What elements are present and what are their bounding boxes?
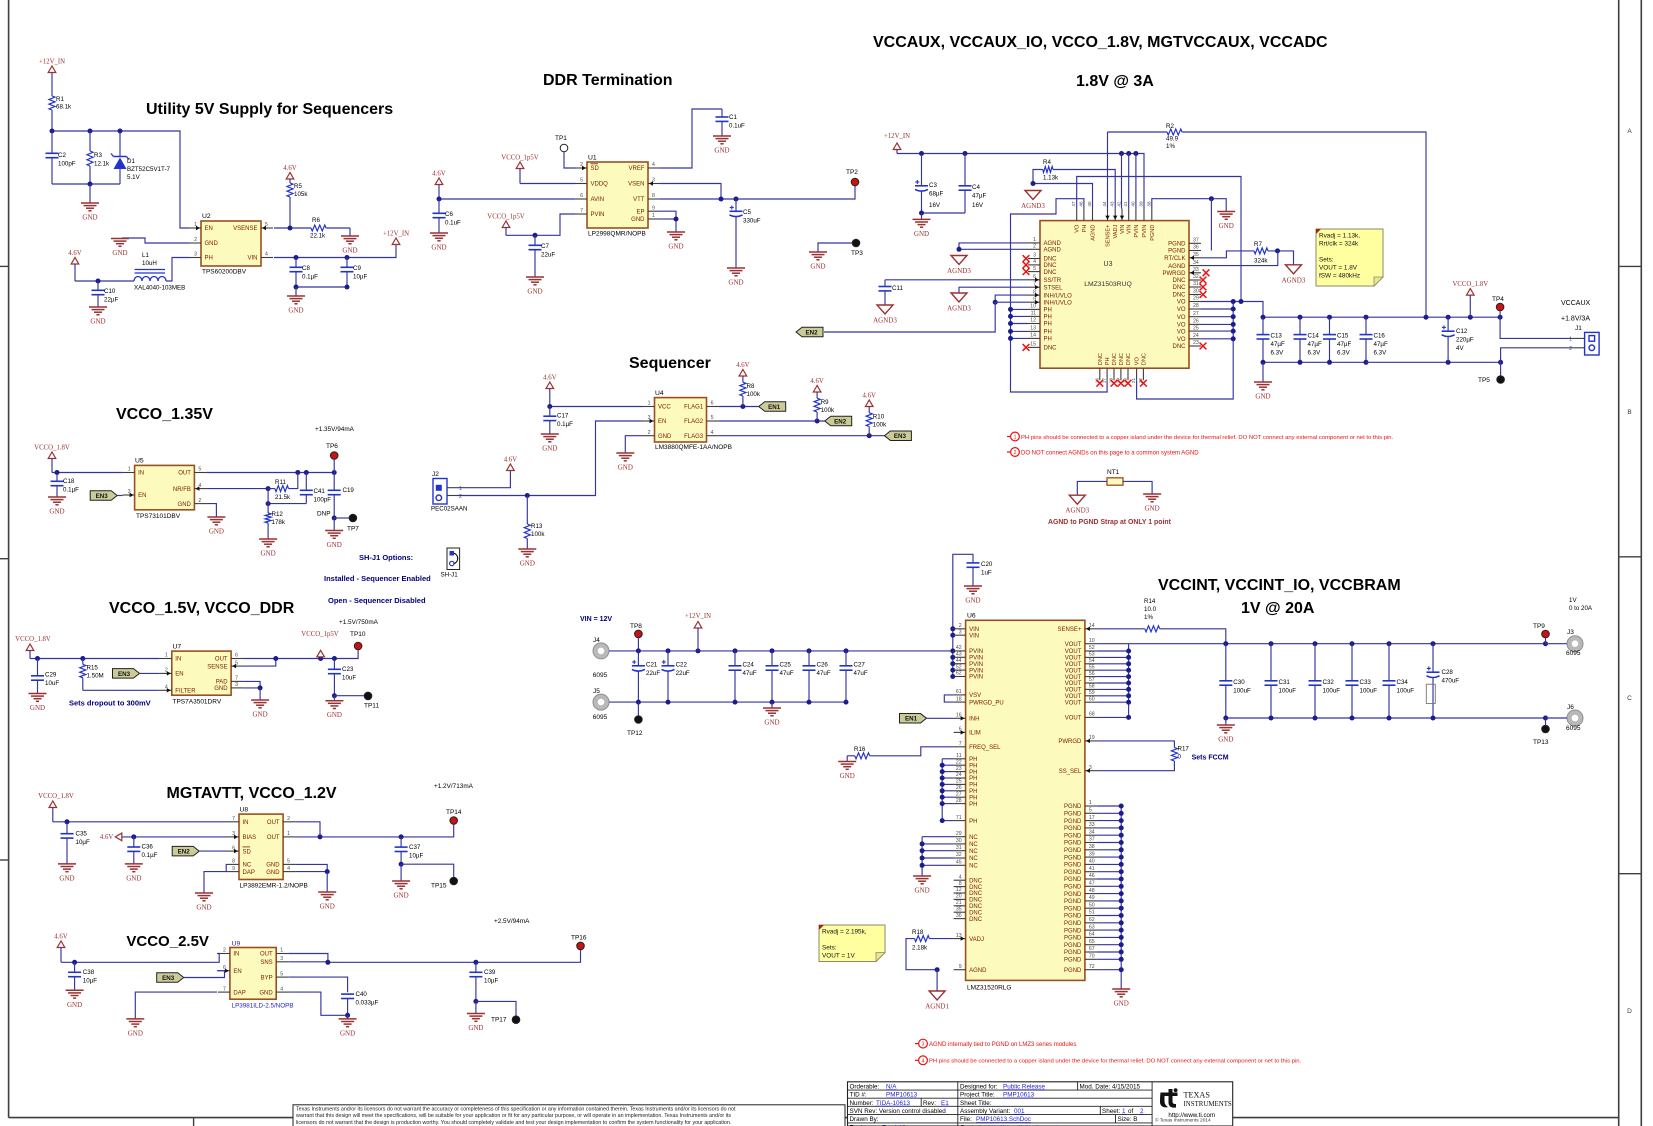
net tag EN3 (U7) [113, 669, 140, 679]
svg-text:DNC: DNC [969, 898, 983, 904]
junction [332, 470, 337, 475]
resistor R11 [275, 486, 289, 492]
svg-text:C28: C28 [1442, 669, 1454, 676]
wire U8 NC DAP [225, 864, 228, 871]
svg-text:2: 2 [459, 494, 462, 500]
svg-text:TEXAS: TEXAS [1184, 1091, 1211, 1100]
svg-text:32: 32 [1193, 274, 1199, 280]
U3 pin 5 DNC [1028, 271, 1040, 273]
U8 pin 9 DAP [227, 871, 239, 873]
ring J6 [1567, 710, 1583, 726]
svg-text:52: 52 [956, 664, 962, 670]
testpoint TP16 [577, 942, 585, 950]
svg-text:TIDA-10613: TIDA-10613 [876, 1100, 910, 1107]
U6 pin 52 VOUT [1085, 650, 1097, 652]
ground (U6 PGND) [1112, 988, 1130, 990]
resistor R3 [89, 131, 91, 151]
junction [920, 856, 925, 861]
svg-text:DNC: DNC [1141, 353, 1147, 365]
svg-text:+12V_IN: +12V_IN [685, 613, 711, 620]
U6 pin 5 PGND [1085, 812, 1097, 814]
resistor R14 [1097, 628, 1145, 630]
svg-text:40: 40 [1089, 859, 1095, 865]
junction [437, 197, 442, 202]
svg-text:Mod. Date: 4/15/2015: Mod. Date: 4/15/2015 [1080, 1083, 1141, 1090]
TI logo mark [1160, 1088, 1178, 1107]
junction [1119, 840, 1124, 845]
svg-text:VCCO_1p5V: VCCO_1p5V [487, 214, 524, 221]
svg-text:C9: C9 [353, 265, 361, 272]
U6 pin 31 NC [954, 850, 966, 852]
svg-text:GND: GND [327, 541, 342, 549]
junction [1364, 315, 1369, 320]
ground (U2 pin2) [111, 238, 129, 240]
svg-text:R6: R6 [312, 217, 320, 224]
junction [1126, 668, 1131, 673]
svg-text:Sets:: Sets: [822, 945, 837, 952]
svg-text:fSW = 480kHz: fSW = 480kHz [1319, 273, 1360, 280]
junction [1119, 862, 1124, 867]
svg-text:11: 11 [1031, 311, 1036, 317]
svg-text:47uF: 47uF [743, 670, 757, 677]
U6 pin 38 PGND [1085, 849, 1097, 851]
svg-text:3: 3 [1033, 253, 1036, 259]
junction [807, 700, 812, 705]
inductor L1 [135, 269, 165, 271]
U4 pin 5 FLAG2 [707, 420, 719, 422]
zone divider A/B [1619, 265, 1642, 267]
testpoint TP10 [354, 642, 362, 650]
svg-text:6095: 6095 [1566, 650, 1581, 657]
svg-text:DNC: DNC [1044, 270, 1058, 276]
capacitor C19 DNP [333, 473, 335, 491]
svg-text:47µF: 47µF [972, 193, 986, 200]
testpoint TP8 [635, 630, 643, 638]
svg-text:37: 37 [1089, 837, 1095, 843]
svg-text:21: 21 [1131, 378, 1136, 384]
svg-text:U4: U4 [655, 390, 664, 397]
note 1 PH pins [1007, 436, 1011, 438]
svg-text:C4: C4 [972, 184, 980, 191]
svg-text:GND: GND [810, 263, 825, 271]
svg-text:6.3V: 6.3V [1271, 350, 1285, 357]
titleblock sheetcol [1099, 1106, 1101, 1114]
svg-text:+12V_IN: +12V_IN [884, 133, 910, 140]
U8 pin 7 IN [227, 821, 239, 823]
svg-text:C34: C34 [1397, 679, 1409, 686]
svg-text:68µF: 68µF [929, 191, 943, 198]
junction [1327, 360, 1332, 365]
ground (C6) [430, 232, 448, 234]
U9 pin 2 IN [218, 953, 230, 955]
svg-text:LP3892EMR-1.2/NOPB: LP3892EMR-1.2/NOPB [240, 883, 308, 890]
svg-text:A: A [1627, 128, 1632, 135]
U3 pin 3 DNC [1028, 258, 1040, 260]
wire PWRGD loop [1097, 741, 1175, 748]
U8 pin 2 OUT [283, 821, 295, 823]
junction [1126, 151, 1131, 156]
svg-text:PGND: PGND [1064, 819, 1082, 825]
junction [1119, 967, 1124, 972]
junction [940, 769, 945, 774]
capacitor C28 470uF [1432, 644, 1434, 673]
svg-text:C14: C14 [1308, 333, 1320, 340]
svg-text:16V: 16V [929, 202, 941, 209]
capacitor C23 [333, 659, 335, 670]
svg-text:10µF: 10µF [353, 274, 367, 281]
junction [1209, 196, 1214, 201]
svg-text:of: of [1128, 1108, 1134, 1115]
svg-text:EN3: EN3 [96, 493, 109, 500]
U6 pin 59 VOUT [1085, 695, 1097, 697]
svg-text:AGND3: AGND3 [873, 317, 897, 325]
junction [399, 834, 404, 839]
svg-text:11: 11 [956, 753, 961, 759]
U6 pin 44 PVIN [954, 663, 966, 665]
svg-text:PH pins should be connected to: PH pins should be connected to a copper … [1021, 435, 1394, 441]
junction [1431, 641, 1436, 646]
svg-text:VOUT: VOUT [1065, 700, 1082, 706]
titleblock col line 1 [957, 1082, 959, 1126]
svg-text:41: 41 [1089, 866, 1095, 872]
junction [294, 285, 299, 290]
U8 pin 8 NC [227, 863, 239, 865]
svg-text:TP13: TP13 [1533, 739, 1549, 746]
junction [1223, 716, 1228, 721]
svg-text:C2: C2 [58, 152, 66, 159]
wire VOUT gnd rail [1226, 717, 1546, 719]
junction [1231, 336, 1236, 341]
power 4.6V (C10) [71, 258, 79, 265]
IC U5 TPS73101DBV [135, 465, 195, 509]
U6 pin 11 PH [954, 758, 966, 760]
svg-text:10uH: 10uH [142, 260, 157, 267]
svg-text:105k: 105k [294, 191, 308, 198]
svg-text:PH: PH [1044, 330, 1052, 336]
junction [1261, 315, 1266, 320]
svg-text:R10: R10 [873, 414, 885, 421]
svg-text:GND: GND [1255, 393, 1270, 401]
U6 pin 51 PGND [1085, 915, 1097, 917]
junction [1126, 681, 1131, 686]
junction [1543, 641, 1548, 646]
junction [940, 782, 945, 787]
U3 pin 11 PH [1028, 315, 1040, 317]
junction [318, 834, 323, 839]
ground (U1 EP) [675, 224, 677, 232]
svg-text:4.6V: 4.6V [736, 362, 749, 369]
svg-text:PMP10613: PMP10613 [886, 1092, 918, 1099]
svg-text:NC: NC [969, 849, 978, 855]
svg-text:GND: GND [728, 279, 743, 287]
svg-text:PGND: PGND [1064, 826, 1082, 832]
svg-text:PH: PH [969, 757, 977, 763]
svg-text:330uF: 330uF [743, 218, 761, 225]
junction [1387, 641, 1392, 646]
power 4.6V (AVIN) [435, 178, 443, 185]
junction [1446, 315, 1451, 320]
junction [719, 197, 724, 202]
junction [325, 960, 330, 965]
svg-text:VOUT: VOUT [1065, 688, 1082, 694]
power 4.6V (R9) [813, 386, 821, 393]
capacitor C27 47uF [845, 651, 847, 666]
wire U5 GND [206, 504, 216, 517]
svg-text:R11: R11 [275, 479, 286, 486]
U6 pin 22 PH [954, 764, 966, 766]
svg-text:52: 52 [1089, 645, 1095, 651]
svg-text:SH-J1 Options:: SH-J1 Options: [359, 553, 413, 562]
capacitor C41 [305, 473, 307, 491]
svg-text:GND: GND [59, 874, 74, 882]
wire U6 VOUT bus [1128, 644, 1130, 718]
U6 pin 7 FREQ_SEL [954, 746, 966, 748]
U3 pin 27 VO [1189, 316, 1201, 318]
wire output rail [1263, 316, 1500, 318]
svg-text:5.1V: 5.1V [127, 174, 141, 181]
svg-text:Open - Sequencer Disabled: Open - Sequencer Disabled [328, 596, 426, 605]
disclaimer box [293, 1105, 845, 1126]
wire VDDQ [520, 183, 575, 185]
svg-text:STSEL: STSEL [1044, 285, 1064, 291]
svg-text:VCCO_1.35V: VCCO_1.35V [116, 406, 213, 423]
svg-text:65: 65 [1089, 939, 1095, 945]
wire R1 to rail [51, 110, 53, 131]
power 4.6V (R10) [865, 400, 873, 407]
junction [1031, 181, 1036, 186]
svg-text:VCC: VCC [658, 405, 671, 411]
svg-text:2.18k: 2.18k [912, 945, 928, 952]
svg-text:BZT52C5V1T-7: BZT52C5V1T-7 [127, 166, 171, 173]
junction [1008, 321, 1013, 326]
svg-text:VO: VO [1135, 356, 1141, 365]
svg-text:GND: GND [431, 244, 446, 252]
junction [1126, 715, 1131, 720]
svg-text:36: 36 [956, 913, 962, 919]
svg-text:1: 1 [1569, 337, 1572, 343]
wire R6 to gnd [326, 227, 350, 229]
svg-text:PGND: PGND [1168, 249, 1186, 255]
power VCCO_1p5V (VDDQ) [516, 162, 524, 169]
svg-text:4: 4 [711, 430, 714, 436]
junction [1119, 906, 1124, 911]
capacitor C25 47uF [771, 651, 773, 666]
U1 pin 2 SD [575, 167, 587, 169]
U4 pin 4 FLAG3 [707, 435, 719, 437]
svg-text:6: 6 [711, 401, 714, 407]
svg-text:INSTRUMENTS: INSTRUMENTS [1184, 1101, 1232, 1108]
svg-text:VDDQ: VDDQ [591, 182, 609, 188]
U3 pin 31 DNC [1189, 286, 1201, 288]
ground (U8 DAP) [195, 892, 213, 894]
svg-text:8: 8 [232, 859, 235, 865]
svg-text:C31: C31 [1279, 679, 1291, 686]
svg-text:16V: 16V [972, 202, 984, 209]
svg-text:2: 2 [198, 498, 201, 504]
junction [733, 700, 738, 705]
junction [844, 700, 849, 705]
svg-text:R13: R13 [531, 523, 543, 530]
capacitor C12 220uF [1447, 317, 1449, 331]
svg-text:100k: 100k [747, 391, 761, 398]
svg-text:DNC: DNC [1173, 344, 1187, 350]
U1 pin 8 VTT [648, 198, 660, 200]
svg-text:5: 5 [1089, 808, 1092, 814]
svg-text:44: 44 [956, 658, 962, 664]
svg-text:4.6V: 4.6V [54, 934, 67, 941]
junction [1119, 928, 1124, 933]
svg-text:+1.35V/94mA: +1.35V/94mA [315, 426, 355, 433]
svg-text:J3: J3 [1567, 629, 1574, 636]
svg-text:PH: PH [1082, 225, 1088, 233]
svg-text:46: 46 [1078, 201, 1083, 207]
U6 pin 67 PGND [1085, 951, 1097, 953]
wire VSV tie [944, 695, 953, 702]
svg-text:R5: R5 [294, 183, 302, 190]
junction [1119, 898, 1124, 903]
svg-text:PH: PH [969, 770, 977, 776]
svg-text:VOUT: VOUT [1065, 668, 1082, 674]
svg-text:62: 62 [956, 671, 962, 677]
svg-text:U6: U6 [967, 613, 976, 620]
svg-text:D: D [1627, 1008, 1632, 1015]
ring J5 [593, 694, 609, 710]
svg-text:GND: GND [128, 1029, 143, 1037]
svg-text:63: 63 [1089, 924, 1095, 930]
svg-text:R12: R12 [272, 511, 284, 518]
note box (U3 settings) [1316, 229, 1383, 286]
svg-text:DNC: DNC [969, 885, 983, 891]
svg-text:0.1uF: 0.1uF [729, 123, 745, 130]
svg-text:C30: C30 [1233, 679, 1245, 686]
svg-text:45: 45 [1087, 201, 1092, 207]
wire U9 SNS rail [288, 950, 580, 962]
svg-text:5: 5 [580, 178, 583, 184]
ground (C30) [1225, 718, 1227, 725]
svg-text:25: 25 [1193, 325, 1199, 331]
svg-text:1: 1 [1014, 435, 1017, 441]
svg-text:8: 8 [652, 193, 655, 199]
U3 pin 15 DNC [1028, 346, 1040, 348]
svg-text:PGND: PGND [1064, 870, 1082, 876]
zone divider B/C [1619, 556, 1642, 558]
junction [940, 763, 945, 768]
svg-text:SS_SEL: SS_SEL [1059, 769, 1082, 775]
U6 pin 68 VOUT [1085, 716, 1097, 718]
U7 pin 2 EN [160, 672, 172, 674]
wire U7 OUT rail [243, 650, 358, 659]
svg-text:SH-J1: SH-J1 [441, 572, 459, 579]
svg-text:EN: EN [233, 969, 241, 975]
junction [258, 685, 263, 690]
svg-text:VREF: VREF [628, 166, 644, 172]
junction [940, 795, 945, 800]
U2 pin 1 EN [189, 227, 201, 229]
svg-text:Sets:: Sets: [1319, 257, 1334, 264]
wire U7 SENSE [243, 659, 276, 667]
testpoint TP9 [1542, 630, 1550, 638]
svg-text:2: 2 [1569, 346, 1572, 352]
testpoint TP1 [560, 144, 568, 152]
junction [950, 626, 955, 631]
svg-text:GND: GND [342, 247, 357, 255]
testpoint TP4 [1496, 303, 1504, 311]
svg-text:VCCAUX, VCCAUX_IO, VCCO_1.8V,: VCCAUX, VCCAUX_IO, VCCO_1.8V, MGTVCCAUX,… [873, 34, 1328, 51]
U6 pin 40 PGND [1085, 863, 1097, 865]
ground (C29) [29, 693, 47, 695]
junction [80, 656, 85, 661]
wire U9 OUT [288, 954, 328, 963]
power VCCO_1.8V [1467, 289, 1475, 296]
wire U9 BYP [288, 977, 347, 992]
svg-text:+12V_IN: +12V_IN [383, 231, 409, 238]
svg-text:Sequencer: Sequencer [629, 355, 711, 372]
svg-text:31: 31 [956, 845, 962, 851]
capacitor C9 [346, 258, 348, 268]
U6 pin 10 VOUT [1085, 643, 1097, 645]
sheet border right outer [1640, 0, 1642, 1126]
testpoint TP5 [1497, 376, 1505, 384]
junction [304, 470, 309, 475]
power VCCO_1.8V (U8) [49, 801, 57, 808]
junction [1498, 360, 1503, 365]
svg-text:TP14: TP14 [446, 809, 462, 816]
power 4.6V (U4 VCC) [546, 382, 554, 389]
svg-text:VO: VO [1177, 300, 1186, 306]
svg-text:PGND: PGND [1064, 914, 1082, 920]
svg-text:1: 1 [1033, 237, 1036, 243]
svg-text:GND: GND [394, 892, 409, 900]
junction [332, 693, 337, 698]
resistor R17 [1171, 748, 1177, 762]
U6 pin 3 VIN [954, 634, 966, 636]
power 4.6V (J2) [507, 464, 515, 471]
svg-text:OUT: OUT [215, 657, 228, 663]
junction [770, 700, 775, 705]
U3 pin 35 RT/CLK [1189, 257, 1201, 259]
svg-text:TP2: TP2 [846, 169, 858, 176]
junction [533, 233, 538, 238]
svg-text:22.1k: 22.1k [310, 233, 326, 240]
svg-text:EN3: EN3 [894, 433, 907, 440]
ground (U4) [616, 452, 634, 454]
svg-text:100uF: 100uF [1323, 688, 1341, 695]
junction [72, 960, 77, 965]
U3 top pin 42 VIN [1121, 209, 1123, 221]
svg-text:Designed for:: Designed for: [960, 1083, 998, 1090]
junction [1231, 322, 1236, 327]
svg-text:5: 5 [198, 467, 201, 473]
svg-text:Rvadj = 1.13k,: Rvadj = 1.13k, [1319, 233, 1360, 240]
svg-text:100pF: 100pF [314, 497, 332, 504]
svg-text:FLAG2: FLAG2 [684, 419, 704, 425]
svg-text:OUT: OUT [178, 471, 191, 477]
junction [1275, 248, 1280, 253]
capacitor C30 100uF [1225, 644, 1227, 681]
svg-text:Installed - Sequencer Enabled: Installed - Sequencer Enabled [324, 574, 431, 583]
junction [1126, 649, 1131, 654]
IC U1 LP2998QMR/NOPB [587, 162, 648, 228]
U4 pin 1 VCC [643, 406, 655, 408]
testpoint TP15 [450, 877, 458, 885]
U8 pin 6 SD [227, 850, 239, 852]
junction [1008, 314, 1013, 319]
ground (NT1) [1143, 493, 1161, 495]
svg-text:DNP: DNP [317, 511, 331, 518]
svg-text:47µF: 47µF [1271, 341, 1285, 348]
svg-text:220µF: 220µF [1456, 337, 1474, 344]
svg-text:SENSE: SENSE [207, 664, 227, 670]
